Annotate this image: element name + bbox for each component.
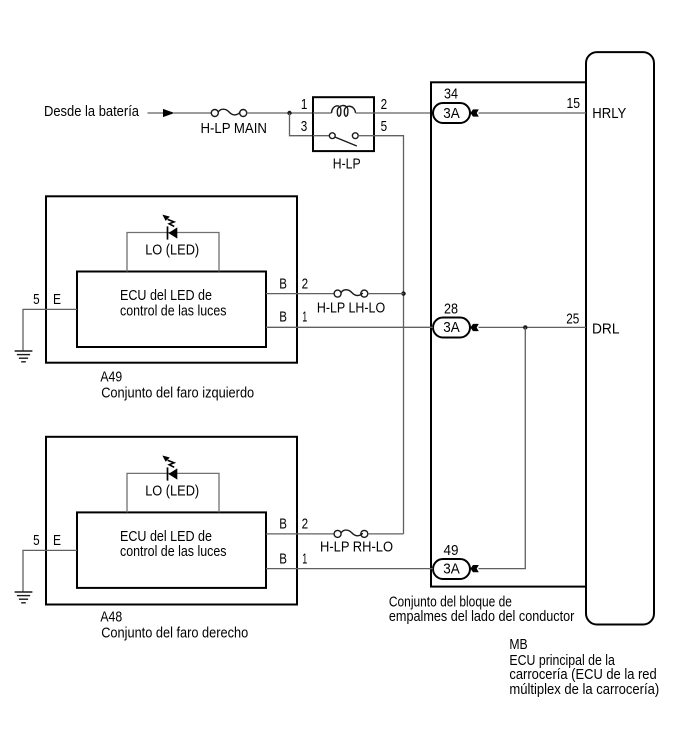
svg-text:MB: MB: [509, 636, 527, 653]
svg-text:E: E: [53, 532, 61, 549]
ground A48: [15, 592, 33, 603]
svg-text:DRL: DRL: [592, 320, 620, 337]
svg-text:3A: 3A: [443, 561, 460, 578]
wire A49 B2 to fuse: [266, 293, 334, 295]
svg-text:control de las luces: control de las luces: [120, 543, 227, 560]
wire connector 28 to DRL: [479, 326, 587, 328]
relay switch wire pin3 side: [313, 135, 329, 137]
svg-text:Conjunto del faro derecho: Conjunto del faro derecho: [101, 625, 248, 642]
relay switch contacts: [329, 133, 358, 146]
arrow connector 49: [470, 565, 478, 572]
svg-text:empalmes del lado del conducto: empalmes del lado del conductor: [389, 608, 575, 625]
svg-text:5: 5: [33, 532, 40, 549]
headlight A49 outer box: [46, 196, 297, 362]
LED box A48: [127, 473, 219, 512]
wire arrow to fuse: [174, 112, 211, 114]
LED D2 diode: [168, 467, 178, 480]
svg-text:1: 1: [302, 308, 307, 325]
fuse H-LP MAIN: [211, 109, 246, 116]
LED D2 emission arrow: [162, 456, 174, 468]
svg-text:LO (LED): LO (LED): [145, 242, 199, 259]
svg-text:1: 1: [302, 550, 307, 567]
svg-text:ECU del LED de: ECU del LED de: [120, 287, 212, 304]
svg-text:5: 5: [33, 291, 40, 308]
wire junction to relay pin 3: [290, 113, 314, 136]
svg-text:1: 1: [301, 96, 308, 113]
svg-text:2: 2: [302, 275, 309, 292]
connector 3A pin 28: [433, 318, 470, 338]
svg-text:5: 5: [381, 118, 388, 135]
fuse H-LP RH-LO: [334, 530, 368, 537]
wire fuse RH to node: [368, 533, 404, 535]
node relay feed and LH junction: [401, 291, 405, 295]
LED D1 emission arrow: [162, 215, 174, 227]
arrow connector 34: [470, 109, 478, 116]
relay coil wire pin2 side: [356, 112, 375, 114]
node battery junction: [287, 111, 291, 115]
label junction block: [389, 593, 575, 624]
svg-text:B: B: [279, 550, 287, 567]
svg-text:3A: 3A: [443, 105, 460, 122]
ECU A48 inner box: [77, 512, 266, 588]
svg-text:28: 28: [444, 301, 458, 318]
wire A49 pin E to ground: [23, 309, 77, 351]
wire fuse LH to node: [368, 293, 404, 295]
arrow connector 28: [470, 324, 478, 331]
svg-text:3A: 3A: [443, 319, 460, 336]
wire A48 pin E to ground: [23, 550, 77, 592]
svg-text:B: B: [279, 516, 287, 533]
label A48: [100, 609, 248, 642]
svg-text:H-LP RH-LO: H-LP RH-LO: [320, 539, 393, 556]
wire battery feed: [148, 112, 166, 114]
LED box A49: [127, 233, 219, 272]
wire A49 B1 to connector 28: [266, 326, 433, 328]
connector 3A pin 49: [433, 559, 470, 579]
svg-text:2: 2: [381, 96, 388, 113]
connector 3A pin 34: [433, 103, 470, 123]
svg-text:A49: A49: [100, 369, 122, 386]
arrow battery feed direction: [163, 109, 175, 117]
wire A48 B2 to fuse: [266, 533, 334, 535]
relay U1 box H-LP: [313, 97, 374, 151]
LED D1 diode: [168, 226, 178, 239]
relay coil: [332, 106, 356, 117]
label MB ECU: [509, 636, 659, 698]
wire A48 B1 to connector 49: [266, 568, 433, 570]
ground A49: [15, 351, 33, 362]
relay coil wire pin1 side: [313, 112, 332, 114]
svg-text:Conjunto del faro izquierdo: Conjunto del faro izquierdo: [101, 385, 254, 402]
node DRL branch: [523, 325, 527, 329]
svg-text:múltiplex de la carrocería): múltiplex de la carrocería): [509, 681, 659, 698]
label ECU A49: [120, 287, 227, 320]
svg-text:B: B: [279, 308, 287, 325]
ECU A49 inner box: [77, 272, 266, 348]
svg-text:control de las luces: control de las luces: [120, 303, 227, 320]
svg-text:49: 49: [444, 542, 459, 559]
svg-text:E: E: [53, 291, 61, 308]
wire connector 34 to HRLY: [479, 112, 587, 114]
svg-text:Desde la batería: Desde la batería: [44, 103, 140, 120]
label A49: [100, 369, 254, 402]
relay switch wire pin5 side: [358, 135, 374, 137]
svg-text:H-LP LH-LO: H-LP LH-LO: [317, 300, 385, 317]
svg-text:3: 3: [301, 118, 308, 135]
svg-text:HRLY: HRLY: [592, 105, 626, 122]
fuse H-LP LH-LO: [334, 290, 368, 297]
svg-text:34: 34: [444, 86, 458, 103]
svg-text:B: B: [279, 275, 287, 292]
svg-text:LO (LED): LO (LED): [145, 483, 199, 500]
junction block box: [431, 82, 586, 586]
svg-text:25: 25: [566, 310, 579, 327]
wire connector 49 to DRL branch: [479, 327, 526, 568]
wire relay pin5 down: [374, 136, 404, 534]
wire relay pin2 to junction block: [374, 112, 433, 114]
svg-text:A48: A48: [100, 609, 122, 626]
label ECU A48: [120, 528, 227, 560]
headlight A48 outer box: [46, 437, 297, 605]
wire fuse to relay pin 1: [247, 112, 313, 114]
svg-text:H-LP: H-LP: [333, 155, 361, 172]
svg-text:H-LP MAIN: H-LP MAIN: [200, 120, 267, 137]
svg-text:2: 2: [302, 516, 309, 533]
ECU MB box: [586, 52, 654, 624]
svg-text:15: 15: [567, 95, 581, 112]
